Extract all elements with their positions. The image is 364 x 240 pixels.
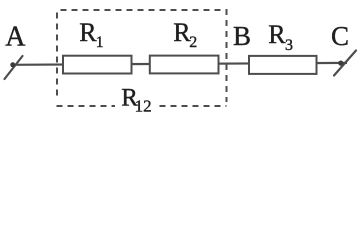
svg-text:3: 3 [285,37,293,54]
svg-text:2: 2 [189,34,197,51]
svg-text:R: R [268,20,286,49]
svg-text:A: A [5,21,26,52]
svg-text:1: 1 [96,34,104,51]
svg-text:12: 12 [135,96,152,115]
svg-text:C: C [331,21,349,51]
svg-text:R: R [79,18,97,47]
svg-text:B: B [233,21,251,51]
